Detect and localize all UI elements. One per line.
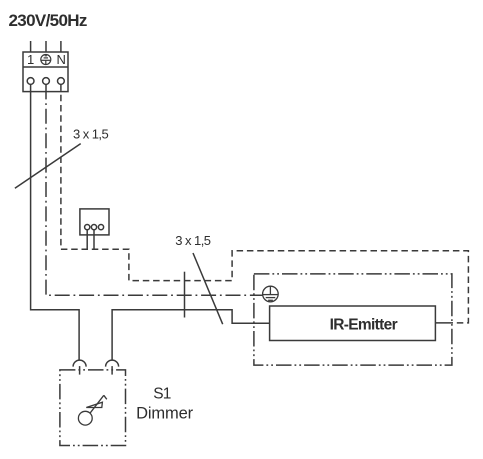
wire stub L above terminal block xyxy=(30,41,32,52)
PE symbol on terminal block xyxy=(41,55,51,65)
junction stub b xyxy=(93,230,95,250)
wire N (dashed) from terminal to IR-Emitter right side xyxy=(61,84,469,323)
dimmer terminal tick right xyxy=(111,366,113,375)
cable tick 2 xyxy=(184,272,186,318)
junction terminal circle b xyxy=(91,225,96,230)
svg-text:S1: S1 xyxy=(153,385,171,402)
terminal block X1 xyxy=(23,52,68,92)
dimmer terminal tick left xyxy=(79,366,81,375)
wire stub N above terminal block xyxy=(60,41,62,52)
wire L horizontal to IR-Emitter xyxy=(112,310,270,360)
dimmer box S1 xyxy=(60,370,126,446)
dimmer terminal bump right xyxy=(106,360,119,367)
wire stub PE above terminal block xyxy=(45,41,47,52)
svg-text:3 x 1,5: 3 x 1,5 xyxy=(175,233,210,248)
svg-text:3 x 1,5: 3 x 1,5 xyxy=(73,127,108,142)
junction terminal circle a xyxy=(85,225,90,230)
terminal circle PE xyxy=(43,78,50,85)
dimmer terminal bump left xyxy=(73,360,86,367)
junction stub a xyxy=(86,230,88,250)
IR-Emitter box xyxy=(270,306,436,341)
earth terminal symbol xyxy=(263,286,279,302)
svg-text:Dimmer: Dimmer xyxy=(136,405,193,423)
terminal circle 1 xyxy=(27,78,34,85)
cable slash 2 xyxy=(193,253,223,324)
terminal circle N xyxy=(58,78,65,85)
svg-text:230V/50Hz: 230V/50Hz xyxy=(9,11,87,30)
enclosure boundary (IR cabin) xyxy=(254,274,452,365)
svg-text:N: N xyxy=(57,52,66,67)
junction box xyxy=(80,209,109,235)
svg-text:1: 1 xyxy=(27,52,34,67)
wire L (solid) from terminal to dimmer xyxy=(31,84,80,360)
cable slash 1 xyxy=(15,144,81,189)
wire PE (dash-dot) from terminal to earth terminal xyxy=(46,84,263,295)
dimmer switch symbol xyxy=(78,395,106,425)
svg-text:IR-Emitter: IR-Emitter xyxy=(330,317,398,334)
wire N solid tail into IR-Emitter xyxy=(435,322,452,324)
junction terminal circle c xyxy=(98,225,103,230)
